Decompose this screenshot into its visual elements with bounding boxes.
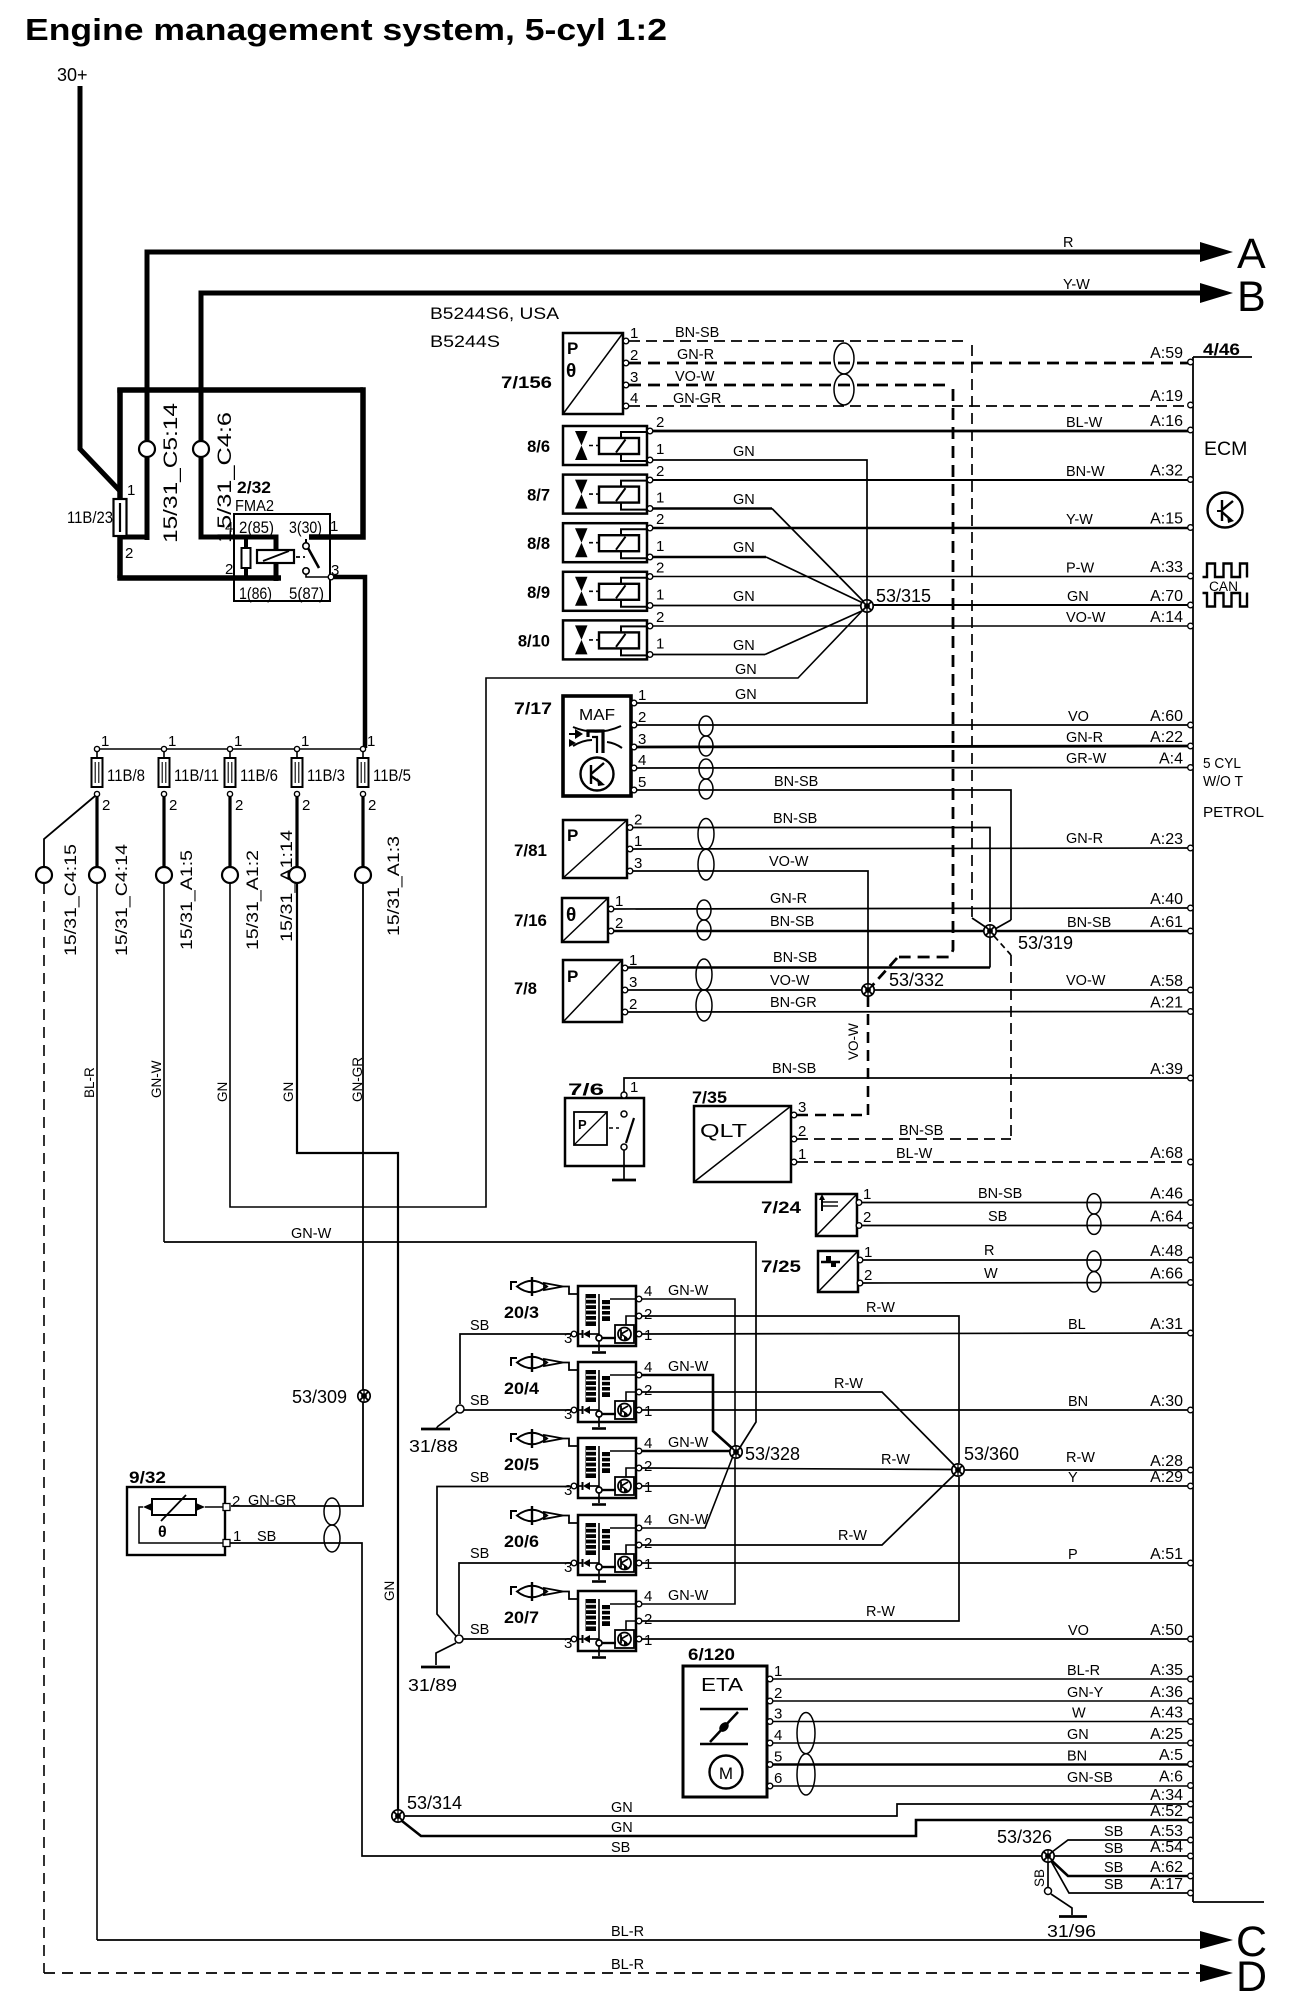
svg-text:2: 2 [302, 797, 310, 814]
wire SB from 53/326 to A:17 [1051, 1861, 1190, 1893]
svg-text:2: 2 [798, 1123, 806, 1140]
pin 3 of 6/120 [767, 1719, 773, 1725]
wire SB from 53/326 to A:53 [1052, 1840, 1190, 1852]
svg-text:15/31_A1:3: 15/31_A1:3 [384, 836, 403, 936]
svg-text:A:15: A:15 [1150, 511, 1183, 528]
wire BL-W dashed from 7/35 pin 1 to A:68 [797, 1161, 1190, 1163]
svg-text:A:23: A:23 [1150, 831, 1183, 848]
pin 2 of fuse 11B/3 [294, 791, 299, 796]
svg-text:1: 1 [774, 1663, 782, 1680]
wire R-W from 20/6 pin 2 [642, 1474, 955, 1545]
pin 2 of fuse 11B/8 [94, 791, 99, 796]
pin 4 of 20/6 [636, 1525, 642, 1531]
junction 53/326 [997, 1827, 1054, 1862]
svg-text:11B/8: 11B/8 [107, 766, 145, 785]
wire SB from 20/3 pin 3 [460, 1334, 571, 1404]
svg-text:W: W [1072, 1706, 1086, 1722]
ground stub of 20/7 [592, 1656, 606, 1659]
svg-text:1: 1 [863, 1186, 871, 1203]
junction 53/360 [952, 1444, 1019, 1476]
arrow C [1200, 1931, 1233, 1949]
svg-text:BL-W: BL-W [1066, 415, 1103, 431]
wire BL-R dashed to arrow D [44, 1972, 1200, 1974]
svg-text:7/81: 7/81 [514, 842, 547, 860]
pin 3 of 20/3 [571, 1331, 577, 1337]
wire fuse 11B/23 branch vertical [117, 388, 123, 578]
svg-text:BN-SB: BN-SB [1067, 915, 1111, 931]
ECM pin A:54 [1188, 1853, 1194, 1859]
svg-text:GN-SB: GN-SB [1067, 1770, 1113, 1786]
svg-text:6/120: 6/120 [688, 1645, 735, 1664]
pin 1 of 8/9 [647, 603, 653, 609]
svg-text:A:16: A:16 [1150, 413, 1183, 430]
svg-text:R-W: R-W [838, 1528, 867, 1544]
svg-text:A:40: A:40 [1150, 891, 1183, 908]
pin 1 of 7/25 [857, 1257, 863, 1263]
wire 30+ supply down to fuse 11B/23 [80, 86, 120, 491]
svg-text:SB: SB [470, 1622, 489, 1638]
wire bottom horizontal to relay coil [117, 575, 281, 581]
ECM pin A:31 [1188, 1330, 1194, 1336]
svg-text:7/8: 7/8 [514, 980, 537, 998]
pin 2 of 8/7 [647, 477, 653, 483]
svg-text:A:17: A:17 [1150, 1876, 1183, 1893]
relay coil [257, 550, 294, 563]
svg-text:B5244S6, USA: B5244S6, USA [430, 304, 560, 323]
pin 3 of 20/6 [571, 1560, 577, 1566]
svg-text:BN-SB: BN-SB [772, 1061, 816, 1077]
wire 53/319 down to 7/8 pin 1 [989, 937, 991, 968]
svg-text:R-W: R-W [866, 1300, 895, 1316]
svg-text:QLT: QLT [700, 1121, 747, 1141]
wire 9/32 internal to pin 2 [205, 1506, 223, 1508]
svg-text:GN-W: GN-W [291, 1226, 332, 1242]
svg-text:SB: SB [470, 1470, 489, 1486]
wire 11B/5 to connector 15/31_A1:3 [361, 797, 364, 867]
pin 1 of 7/16 [608, 906, 614, 912]
pin 1 of 20/4 [636, 1407, 642, 1413]
wire 11B/8 to connector 15/31_C4:14 [95, 797, 98, 867]
wire BN-SB from 7/16 pin 2 through 53/319 to A:61 [614, 930, 1190, 932]
svg-text:2: 2 [774, 1685, 782, 1702]
ECM pin A:4 [1188, 765, 1194, 771]
wire W from 6/120 to ECM A:43 [773, 1721, 1190, 1723]
svg-text:A:54: A:54 [1150, 1839, 1183, 1856]
pin 1 of 7/81 [627, 846, 633, 852]
svg-text:1: 1 [234, 733, 242, 750]
ECM pin A:46 [1188, 1200, 1194, 1206]
svg-text:BN-SB: BN-SB [773, 950, 817, 966]
svg-text:2: 2 [863, 1209, 871, 1226]
ECM pin A:68 [1188, 1159, 1194, 1165]
svg-text:11B/5: 11B/5 [373, 766, 411, 785]
output stage of 20/5 [615, 1477, 634, 1495]
wire GN-Y from 6/120 to ECM A:36 [773, 1700, 1190, 1702]
wire BL from coil pin 1 to ECM [642, 1333, 1190, 1334]
svg-text:SB: SB [1104, 1841, 1123, 1857]
svg-text:A:14: A:14 [1150, 609, 1183, 626]
wire BN-SB from 7/6 pin 1 to A:39 [624, 1078, 1190, 1092]
pin 2 of 7/16 [608, 928, 614, 934]
wire VO from MAF pin 2 to A:60 [637, 724, 1190, 726]
wire GR-W from MAF pin 4 to A:4 [637, 767, 1190, 770]
svg-text:BL: BL [1068, 1317, 1086, 1333]
junction 53/319 [984, 925, 1073, 953]
ECM pin A:62 [1188, 1873, 1194, 1879]
svg-text:53/319: 53/319 [1018, 933, 1073, 953]
svg-text:15/31_C4:14: 15/31_C4:14 [112, 844, 131, 956]
pin 1 of 6/120 [767, 1676, 773, 1682]
pin 1 of fuse 11B/6 [227, 746, 232, 751]
svg-text:VO: VO [1068, 1623, 1089, 1639]
svg-text:31/96: 31/96 [1047, 1921, 1096, 1941]
svg-text:GN: GN [1067, 589, 1089, 605]
svg-text:A:59: A:59 [1150, 345, 1183, 362]
svg-text:GN-R: GN-R [1066, 831, 1103, 847]
ECM pin A:40 [1188, 905, 1194, 911]
wire right vertical into relay pin 1 3(30) [309, 387, 363, 537]
wire R-W from 20/7 pin 2 [642, 1477, 959, 1621]
wire GN-R from 7/81 pin 1 to A:23 [633, 848, 1190, 849]
svg-text:GN-W: GN-W [668, 1435, 709, 1451]
svg-text:BL-R: BL-R [1067, 1663, 1100, 1679]
pin 3 of 20/5 [571, 1483, 577, 1489]
svg-text:GN-W: GN-W [668, 1512, 709, 1528]
wire GN from 53/314 to A:52 [402, 1820, 1190, 1836]
pin 2 of fuse 11B/5 [360, 791, 365, 796]
wire GN-W main feed to 53/328 [164, 1242, 756, 1449]
svg-text:1: 1 [656, 490, 664, 507]
svg-text:1: 1 [168, 733, 176, 750]
svg-text:11B/23: 11B/23 [67, 508, 113, 527]
svg-text:A: A [1237, 230, 1266, 278]
MAF venturi icon [573, 726, 621, 732]
svg-text:31/89: 31/89 [408, 1675, 457, 1695]
pin 1 of fuse 11B/5 [360, 746, 365, 751]
svg-text:B: B [1237, 273, 1266, 321]
svg-text:GN-GR: GN-GR [673, 391, 721, 407]
twisted pair marker 6/120 [797, 1713, 815, 1796]
pin 2 of 6/120 [767, 1698, 773, 1704]
ground stub of 20/5 [592, 1503, 606, 1506]
svg-text:VO-W: VO-W [846, 1023, 861, 1060]
svg-text:2: 2 [235, 797, 243, 814]
wire VO-W dashed vertical [899, 389, 953, 957]
ECM pin A:53 [1188, 1837, 1194, 1843]
wire BL-R dashed down to arrow D [43, 883, 45, 1973]
svg-text:3: 3 [564, 1330, 572, 1347]
svg-text:GN: GN [733, 589, 755, 605]
svg-text:15/31_C5:14: 15/31_C5:14 [161, 402, 182, 543]
wire Y-W to arrow B and relay coil [201, 293, 1200, 581]
svg-text:SB: SB [470, 1546, 489, 1562]
svg-text:VO: VO [1068, 709, 1089, 725]
svg-text:GN-W: GN-W [668, 1283, 709, 1299]
connector 15/31_C4:6 [193, 441, 209, 457]
ground 31/88 [436, 1427, 438, 1428]
svg-text:SB: SB [470, 1393, 489, 1409]
body of 20/3 [578, 1286, 636, 1346]
wire R-W from 20/3 pin 2 [642, 1316, 959, 1463]
pin 2 of 7/24 [856, 1223, 862, 1229]
svg-text:3: 3 [638, 731, 646, 748]
pin 2 of fuse 11B/6 [227, 791, 232, 796]
svg-text:20/3: 20/3 [504, 1304, 539, 1322]
pin 3 of 7/35 [791, 1112, 797, 1118]
svg-text:1: 1 [630, 325, 638, 342]
pin 3 contact of relay [328, 574, 334, 580]
svg-text:2: 2 [644, 1382, 652, 1399]
svg-text:CAN: CAN [1209, 579, 1238, 594]
svg-text:B5244S: B5244S [430, 332, 500, 351]
svg-text:SB: SB [1104, 1860, 1123, 1876]
pin 3 of 7/8 [622, 987, 628, 993]
svg-text:5: 5 [774, 1749, 782, 1766]
ECM pin A:52 [1188, 1817, 1194, 1823]
junction 53/315 [861, 586, 931, 612]
svg-text:11B/6: 11B/6 [240, 766, 278, 785]
svg-text:1: 1 [644, 1556, 652, 1573]
svg-text:2: 2 [169, 797, 177, 814]
svg-text:1: 1 [656, 441, 664, 458]
svg-text:VO-W: VO-W [675, 369, 715, 385]
wire SB from 9/32 pin 1 to 53/326 [230, 1543, 1190, 1856]
svg-text:2: 2 [864, 1267, 872, 1284]
ECM pin A:21 [1188, 1009, 1194, 1015]
ground stub of 20/6 [592, 1580, 606, 1583]
pin 1 of fuse 11B/8 [94, 746, 99, 751]
svg-text:M: M [719, 1764, 733, 1783]
wire BN from coil pin 1 to ECM [642, 1409, 1190, 1411]
svg-text:W: W [984, 1266, 998, 1282]
svg-text:GN: GN [733, 540, 755, 556]
ground stub of 20/3 [592, 1351, 606, 1354]
twisted pair marker MAF 4-5 [699, 759, 713, 799]
ECM pin A:17 [1188, 1890, 1194, 1896]
node SB ground contact [1045, 1888, 1052, 1895]
svg-text:SB: SB [988, 1209, 1007, 1225]
CAN symbol [1203, 564, 1248, 578]
wire link fuse to R feed [118, 535, 147, 540]
svg-text:P-W: P-W [1066, 561, 1095, 577]
svg-text:4: 4 [225, 519, 233, 536]
svg-text:VO-W: VO-W [769, 854, 809, 870]
fuse 11B/23 [114, 499, 127, 536]
svg-text:BL-R: BL-R [611, 1957, 644, 1973]
connector 15/31_A1:3 [355, 867, 371, 883]
svg-text:GN-W: GN-W [668, 1588, 709, 1604]
svg-text:8/10: 8/10 [518, 632, 550, 650]
svg-text:A:32: A:32 [1150, 463, 1183, 480]
svg-text:SB: SB [1032, 1869, 1047, 1887]
ECM pin A:34 [1188, 1801, 1194, 1807]
svg-text:R-W: R-W [881, 1452, 910, 1468]
wire GN from 8/7 pin 1 [653, 507, 772, 510]
wire 11B/8 to connector 15/31_C4:15 [44, 796, 95, 867]
body of 20/6 [578, 1515, 636, 1575]
svg-text:9/32: 9/32 [129, 1469, 166, 1487]
junction 53/314 [392, 1793, 462, 1822]
twisted pair marker 7/156 harness [834, 343, 854, 405]
wire relay 87 output to fuse bus [334, 577, 365, 748]
svg-text:θ: θ [566, 905, 576, 926]
svg-text:20/6: 20/6 [504, 1533, 539, 1551]
output stage of 20/4 [615, 1401, 634, 1419]
svg-text:VO-W: VO-W [1066, 973, 1106, 989]
wire GN-W down [163, 883, 165, 1242]
wire 11B/3 to connector 15/31_A1:14 [295, 797, 298, 867]
wire GN down to 53/314 [297, 883, 398, 1810]
connector 15/31_C4:15 [36, 867, 52, 883]
svg-text:GN-R: GN-R [770, 891, 807, 907]
svg-text:GN-Y: GN-Y [1067, 1685, 1104, 1701]
ECM pin A:16 [1188, 427, 1194, 433]
arrow A [1200, 242, 1233, 262]
twisted pair marker 7/25 [1087, 1251, 1101, 1292]
svg-text:A:4: A:4 [1159, 751, 1183, 768]
svg-text:MAF: MAF [579, 707, 615, 724]
fuse 11B/8 [92, 758, 103, 787]
svg-text:4: 4 [774, 1727, 782, 1744]
svg-text:7/24: 7/24 [761, 1199, 802, 1217]
spark plug of 20/3 [511, 1282, 517, 1290]
pin 4 of 20/4 [636, 1372, 642, 1378]
svg-text:2: 2 [368, 797, 376, 814]
svg-text:A:62: A:62 [1150, 1859, 1183, 1876]
spark plug of 20/6 [511, 1511, 517, 1519]
svg-text:1: 1 [656, 538, 664, 555]
body of 20/4 [578, 1362, 636, 1422]
svg-text:ECM: ECM [1204, 438, 1247, 460]
svg-text:A:35: A:35 [1150, 1662, 1183, 1679]
svg-text:3: 3 [564, 1482, 572, 1499]
svg-text:2: 2 [102, 797, 110, 814]
wire BN-SB dashed vertical to 53/319 [971, 345, 973, 918]
wire GN-W from 20/6 pin 4 [642, 1456, 733, 1528]
svg-text:7/35: 7/35 [692, 1089, 727, 1107]
ECM pin A:58 [1188, 987, 1194, 993]
ECM pin A:22 [1188, 743, 1194, 749]
wire GN from 8/10 pin 1 [653, 654, 765, 656]
wire GN-R from 7/16 pin 1 to A:40 [614, 908, 1190, 909]
wire BN-SB from MAF pin 5 to 53/319 [637, 790, 1011, 920]
fuse 11B/3 [292, 758, 303, 787]
output stage of 20/3 [615, 1325, 634, 1343]
ECM pin A:51 [1188, 1560, 1194, 1566]
svg-text:3: 3 [629, 974, 637, 991]
pin 2 of 20/3 [636, 1313, 642, 1319]
pin 3 of 7/156 [623, 382, 629, 388]
node SB join upper [456, 1405, 464, 1413]
junction 53/309 [292, 1387, 370, 1407]
svg-text:1: 1 [301, 733, 309, 750]
svg-text:GN-GR: GN-GR [350, 1057, 365, 1102]
arrow D [1200, 1964, 1233, 1982]
wire GN-W from 20/7 pin 4 [642, 1459, 735, 1604]
pin 2 of 20/7 [636, 1618, 642, 1624]
svg-text:2: 2 [644, 1535, 652, 1552]
wire BN-SB from 7/24 pin 1 to A:46 [862, 1202, 1190, 1204]
svg-text:GN: GN [735, 662, 757, 678]
ECM pin A:39 [1188, 1075, 1194, 1081]
fuse 11B/6 [225, 758, 236, 787]
ECM pin A:33 [1188, 573, 1194, 579]
wire R-W from 53/360 to A:28 [964, 1469, 1190, 1471]
output stage of 20/7 [615, 1630, 634, 1648]
svg-text:A:39: A:39 [1150, 1061, 1183, 1078]
twisted pair marker MAF 2-3 [699, 716, 713, 756]
pin 1 of fuse 11B/11 [161, 746, 166, 751]
pin 2 of MAF 7/17 [631, 722, 637, 728]
wire BN-W from 8/7 to ECM A:32 [653, 479, 1190, 481]
svg-text:GN-W: GN-W [149, 1060, 164, 1098]
pin 5 of MAF 7/17 [631, 787, 637, 793]
pin 1 of 7/8 [622, 965, 628, 971]
wire 11B/6 to connector 15/31_A1:2 [228, 797, 231, 867]
fuse 11B/11 [159, 758, 170, 787]
svg-text:SB: SB [1104, 1877, 1123, 1893]
svg-text:R: R [1063, 235, 1073, 251]
svg-text:2: 2 [125, 545, 133, 562]
svg-text:3: 3 [634, 855, 642, 872]
wire VO from coil pin 1 to ECM [642, 1638, 1190, 1640]
svg-text:GN: GN [215, 1082, 230, 1102]
ground below 7/6 [623, 1166, 625, 1180]
ECM pin A:28 [1188, 1467, 1194, 1473]
svg-text:1: 1 [634, 833, 642, 850]
ECM pin A:23 [1188, 845, 1194, 851]
wire top horizontal to relay 3(30) [117, 387, 363, 393]
svg-text:GN: GN [611, 1800, 633, 1816]
pin 2 of 20/4 [636, 1389, 642, 1395]
pin 1 of 20/3 [636, 1331, 642, 1337]
wire Y from coil pin 1 to ECM [642, 1485, 1190, 1487]
pin 1 of 8/6 [647, 457, 653, 463]
svg-text:A:36: A:36 [1150, 1684, 1183, 1701]
svg-text:1: 1 [101, 733, 109, 750]
svg-text:53/314: 53/314 [407, 1793, 462, 1813]
svg-text:A:50: A:50 [1150, 1622, 1183, 1639]
svg-text:53/332: 53/332 [889, 970, 944, 990]
connector 15/31_A1:14 [289, 867, 305, 883]
wire P from coil pin 1 to ECM [642, 1562, 1190, 1564]
svg-text:2: 2 [656, 414, 664, 431]
svg-text:SB: SB [611, 1840, 630, 1856]
wire GN-GR dashed to A:19 [629, 405, 1190, 407]
wire dashed 7/35 pin 3 [797, 1114, 868, 1117]
spark plug of 20/5 [511, 1434, 517, 1442]
twisted pair marker 7/81 [698, 819, 714, 880]
svg-text:4: 4 [644, 1512, 652, 1529]
wire SB from 53/326 down to ground [1047, 1862, 1049, 1888]
svg-text:R-W: R-W [834, 1376, 863, 1392]
body of 20/5 [578, 1438, 636, 1498]
svg-text:θ: θ [158, 1524, 167, 1541]
svg-text:Engine management system, 5-cy: Engine management system, 5-cyl 1:2 [25, 12, 667, 47]
wire VO-W from 7/81 pin 3 to 53/332 [633, 871, 868, 984]
svg-text:A:66: A:66 [1150, 1266, 1183, 1283]
svg-text:1: 1 [644, 1327, 652, 1344]
svg-text:A:33: A:33 [1150, 559, 1183, 576]
svg-text:FMA2: FMA2 [235, 498, 274, 515]
svg-text:BN-GR: BN-GR [770, 995, 817, 1011]
svg-text:BN: BN [1068, 1394, 1088, 1410]
pin 3 of MAF 7/17 [631, 744, 637, 750]
svg-text:A:19: A:19 [1150, 388, 1183, 405]
svg-text:2: 2 [656, 511, 664, 528]
svg-text:15/31_A1:2: 15/31_A1:2 [243, 850, 262, 950]
svg-text:2/32: 2/32 [237, 478, 271, 497]
